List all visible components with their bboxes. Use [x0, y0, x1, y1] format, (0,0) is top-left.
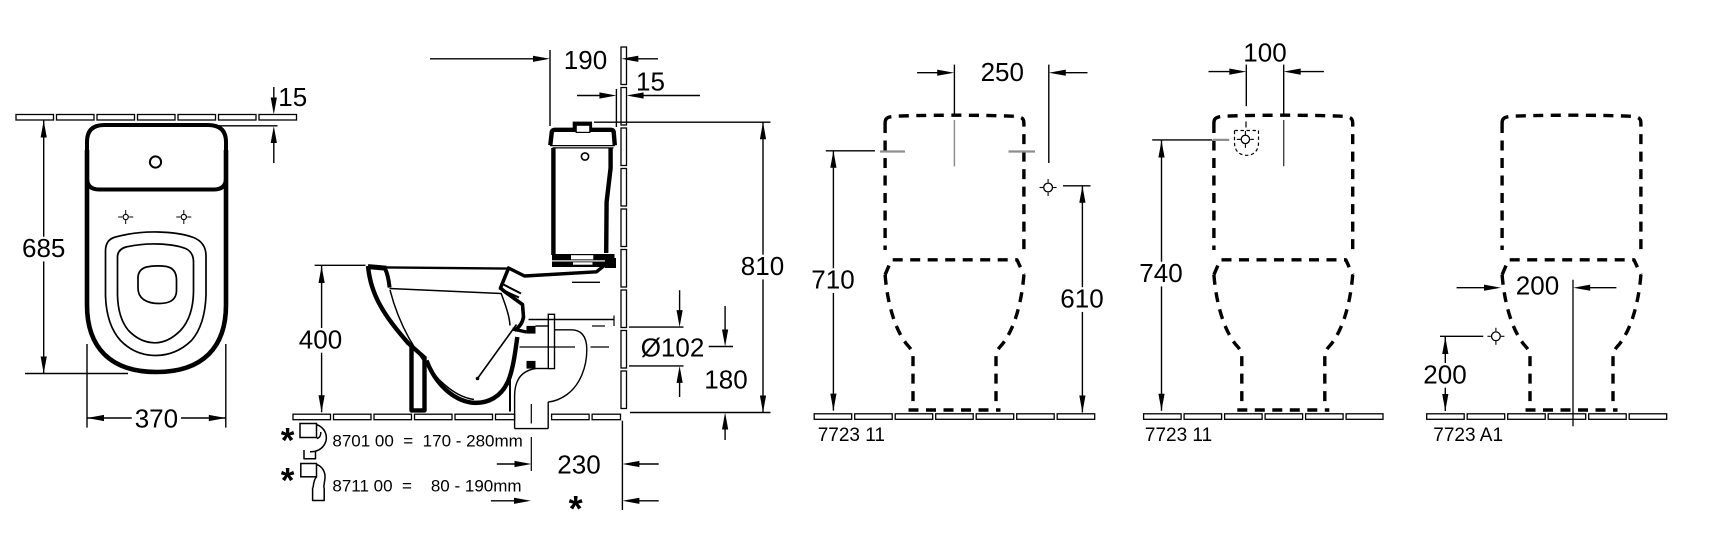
- svg-text:200: 200: [1516, 271, 1559, 301]
- svg-text:7723 11: 7723 11: [818, 425, 885, 446]
- svg-text:610: 610: [1060, 284, 1103, 314]
- svg-text:Ø102: Ø102: [641, 333, 705, 363]
- svg-text:250: 250: [981, 57, 1024, 87]
- svg-text:190: 190: [564, 45, 607, 75]
- svg-text:8701 00 = 170 - 280mm: 8701 00 = 170 - 280mm: [332, 432, 522, 451]
- svg-text:685: 685: [22, 233, 65, 263]
- svg-text:180: 180: [704, 365, 747, 395]
- svg-text:7723 A1: 7723 A1: [1433, 425, 1503, 446]
- svg-text:8711 00 = 80 - 190mm: 8711 00 = 80 - 190mm: [332, 477, 521, 496]
- svg-text:370: 370: [135, 403, 178, 433]
- svg-text:*: *: [281, 462, 295, 501]
- svg-text:810: 810: [741, 251, 784, 281]
- svg-text:15: 15: [278, 82, 307, 112]
- svg-text:740: 740: [1139, 258, 1182, 288]
- svg-text:7723 11: 7723 11: [1145, 425, 1212, 446]
- svg-text:710: 710: [811, 265, 854, 295]
- svg-text:230: 230: [557, 449, 600, 479]
- svg-text:100: 100: [1243, 38, 1286, 68]
- svg-text:200: 200: [1423, 359, 1466, 389]
- svg-text:*: *: [569, 488, 583, 529]
- svg-text:15: 15: [636, 66, 665, 96]
- svg-text:400: 400: [299, 324, 342, 354]
- svg-text:*: *: [281, 422, 295, 461]
